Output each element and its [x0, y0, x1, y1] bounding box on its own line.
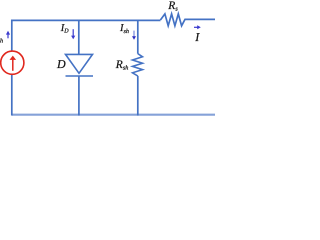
svg-text:Rsh: Rsh [115, 59, 129, 72]
svg-text:Rs: Rs [167, 0, 178, 12]
svg-text:Iph: Iph [0, 33, 3, 45]
svg-text:Ish: Ish [119, 23, 129, 35]
svg-text:I: I [194, 30, 200, 44]
svg-text:D: D [56, 57, 66, 71]
svg-text:ID: ID [60, 23, 70, 34]
